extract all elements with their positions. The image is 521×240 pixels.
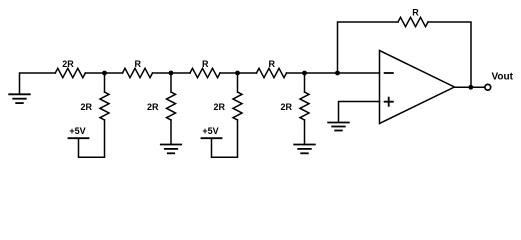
wire: op-amp output	[454, 86, 484, 88]
ground (left 2R termination)	[9, 94, 30, 103]
node D (junction)	[302, 71, 307, 76]
svg-text:2R: 2R	[147, 102, 159, 112]
resistor R3 (ladder series R)	[257, 59, 287, 78]
wire: 2R leg at node A to +5V source	[79, 120, 105, 157]
svg-text:R: R	[269, 59, 276, 69]
node E (summing junction)	[335, 71, 340, 76]
svg-text:+5V: +5V	[202, 126, 218, 136]
wire: feedback from node E up and across	[338, 22, 399, 73]
node B (junction)	[169, 71, 174, 76]
resistor 2R (shunt leg at node D)	[280, 92, 309, 120]
resistor R2 (ladder series R)	[190, 59, 220, 78]
resistor 2R (shunt leg at node C)	[213, 92, 242, 120]
ground (2R leg termination at node B)	[161, 145, 181, 154]
wire: R2 to node C	[220, 72, 238, 74]
wire: 2R to node A	[85, 72, 104, 74]
power +5V (input bit at node C)	[202, 126, 222, 138]
resistor 2R (shunt leg at node B)	[147, 92, 176, 120]
terminal Vout	[485, 71, 514, 90]
wire: node A to R1	[105, 72, 123, 74]
svg-text:2R: 2R	[62, 59, 74, 69]
wire: node D to summing node E	[305, 72, 338, 74]
wire: feedback to output node	[428, 22, 471, 87]
wire: node B to R2	[171, 72, 190, 74]
wire: node D down to 2R leg	[304, 73, 306, 92]
wire: input rail left segment with drop to ground	[20, 73, 56, 94]
svg-text:2R: 2R	[280, 102, 292, 112]
svg-text:R: R	[412, 7, 419, 17]
svg-text:Vout: Vout	[492, 71, 514, 82]
power +5V (input bit at node A)	[69, 126, 89, 138]
wire: node A down to 2R leg	[104, 73, 106, 92]
wire: 2R leg at node C to +5V source	[212, 120, 238, 157]
wire: 2R leg at node B to ground	[170, 120, 172, 144]
wire: node E to op-amp inverting input	[338, 72, 380, 74]
wire: 2R leg at node D to ground	[304, 120, 306, 144]
wire: R3 to node D	[287, 72, 305, 74]
svg-text:2R: 2R	[80, 102, 92, 112]
wire: R1 to node B	[153, 72, 172, 74]
ground (non-inverting input)	[328, 123, 349, 131]
svg-text:+5V: +5V	[69, 126, 85, 136]
resistor R (feedback)	[398, 7, 428, 26]
op-amp U1	[380, 51, 455, 124]
svg-text:R: R	[202, 59, 209, 69]
node F (output junction)	[468, 85, 473, 90]
resistor 2R (shunt leg at node A)	[80, 92, 109, 120]
svg-text:R: R	[135, 59, 142, 69]
ground (2R leg termination at node D)	[294, 145, 315, 154]
resistor R1 (ladder series R)	[123, 59, 153, 78]
wire: node C to R3	[238, 72, 257, 74]
node A (junction)	[102, 71, 107, 76]
wire: op-amp non-inverting input	[339, 102, 380, 123]
resistor 2R (series input resistor)	[55, 59, 85, 78]
wire: node B down to 2R leg	[170, 73, 172, 92]
wire: node C down to 2R leg	[237, 73, 239, 92]
node C (junction)	[235, 71, 240, 76]
svg-text:2R: 2R	[213, 102, 225, 112]
